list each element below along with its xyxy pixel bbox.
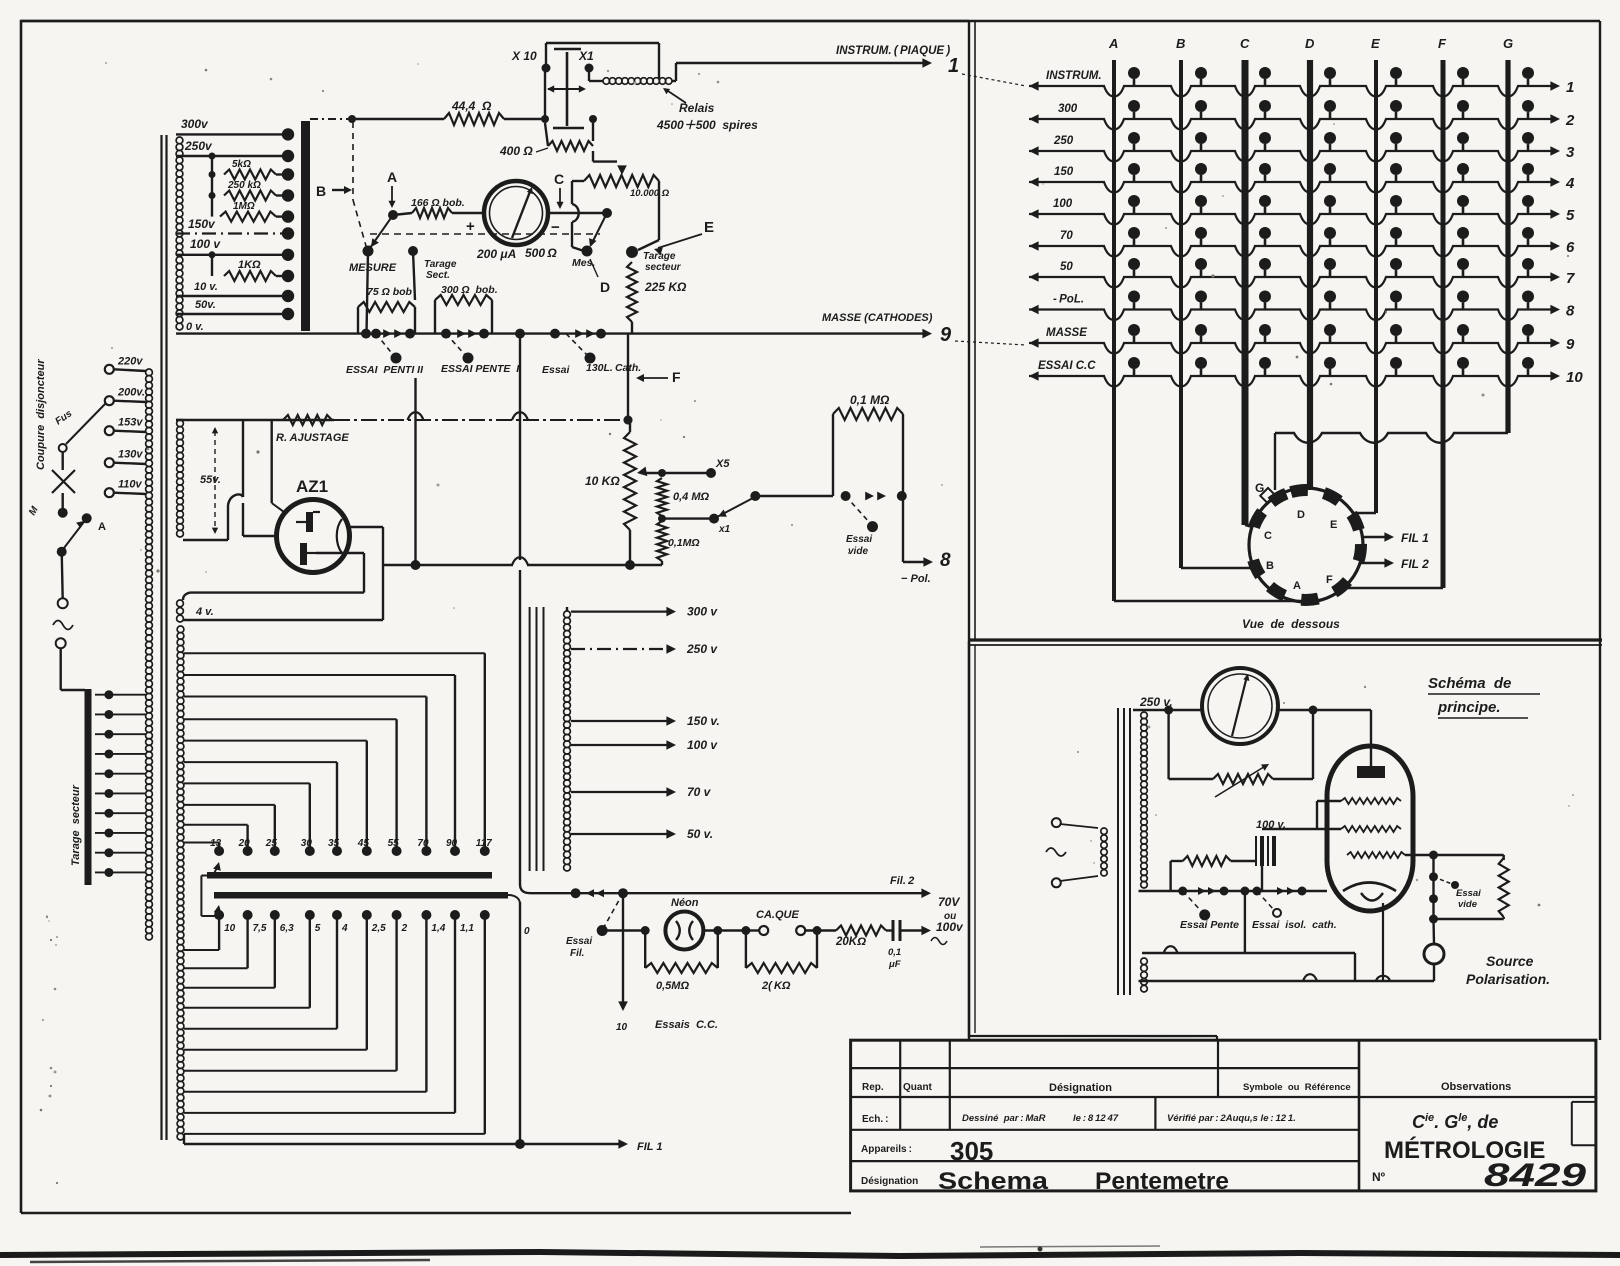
contacts essai 150b cath: [550, 329, 560, 339]
svg-text:R. AJUSTAGE: R. AJUSTAGE: [276, 432, 349, 444]
svg-text:Essai Pente: Essai Pente: [1180, 919, 1239, 931]
scan speck: [1038, 1247, 1043, 1252]
node X10 cap: [541, 115, 549, 123]
svg-text:D: D: [1297, 509, 1305, 521]
svg-text:X 10: X 10: [511, 49, 537, 63]
essai cc drop: [622, 893, 624, 1005]
svg-text:300 Ω bob.: 300 Ω bob.: [441, 284, 498, 296]
wiper X5: [637, 467, 647, 477]
svg-text:F: F: [1326, 574, 1333, 586]
svg-text:25: 25: [265, 838, 278, 849]
svg-text:AZ1: AZ1: [296, 477, 328, 496]
svg-text:Schema: Schema: [938, 1168, 1049, 1195]
svg-text:70: 70: [417, 838, 429, 849]
ganged switch dashed link: [370, 233, 600, 235]
wire 10000 right to E contact: [658, 181, 660, 240]
svg-text:Essai: Essai: [1456, 888, 1481, 899]
battery to bus: [1261, 866, 1263, 891]
mains selector circles 220v-110v: [105, 365, 114, 374]
matrix exit D: [1309, 376, 1311, 490]
svg-text:100v: 100v: [936, 920, 964, 934]
svg-text:Schéma de: Schéma de: [1428, 675, 1511, 692]
svg-text:Fil. 2: Fil. 2: [890, 875, 914, 887]
svg-text:Rep.: Rep.: [862, 1082, 884, 1093]
power tube outline: [1327, 746, 1413, 911]
svg-text:Cie. Gle, de: Cie. Gle, de: [1412, 1112, 1498, 1132]
svg-text:400 Ω: 400 Ω: [499, 144, 533, 158]
svg-text:13: 13: [210, 838, 222, 849]
switch arm A-MESURE: [370, 215, 393, 248]
terminal circle: [58, 598, 68, 608]
svg-text:8: 8: [1566, 303, 1575, 320]
rectifier tube AZ1: [277, 500, 350, 573]
svg-text:0: 0: [524, 926, 530, 937]
svg-text:Symbole ou Référence: Symbole ou Référence: [1243, 1082, 1351, 1093]
contact x1: [662, 517, 714, 519]
wire R ajustage down: [271, 420, 273, 503]
y420 solid left: [176, 419, 334, 421]
selector bar Tarage secteur: [85, 689, 92, 885]
transformer T2 core: [529, 607, 531, 871]
svg-text:F: F: [1438, 36, 1447, 51]
svg-text:X1: X1: [578, 49, 594, 63]
principle bus: [1139, 890, 1328, 892]
svg-text:50: 50: [1060, 261, 1073, 273]
svg-text:B: B: [1266, 560, 1274, 572]
switch arm x1: [714, 498, 753, 519]
contacts essai vide: [841, 491, 851, 501]
svg-text:G: G: [1503, 36, 1513, 51]
svg-text:7: 7: [1566, 270, 1575, 287]
svg-text:70: 70: [1060, 230, 1073, 242]
svg-text:+: +: [466, 218, 475, 235]
svg-text:44,4 Ω: 44,4 Ω: [451, 99, 492, 113]
svg-text:8429: 8429: [1484, 1157, 1586, 1193]
resistor 20KΩ series: [836, 926, 886, 936]
svg-text:Désignation: Désignation: [861, 1176, 918, 1187]
principle lower wiring: [1244, 891, 1246, 953]
essai vide contacts: [1429, 872, 1438, 881]
svg-text:Sect.: Sect.: [426, 270, 450, 281]
grid3 wire essai vide: [1405, 854, 1434, 856]
svg-text:Polarisation.: Polarisation.: [1466, 971, 1550, 987]
svg-text:4500＋500 spires: 4500＋500 spires: [656, 118, 758, 132]
svg-text:10.000 Ω: 10.000 Ω: [630, 188, 670, 199]
svg-text:X5: X5: [715, 458, 730, 470]
svg-text:D: D: [1305, 36, 1315, 51]
svg-text:0,1MΩ: 0,1MΩ: [668, 537, 700, 549]
wire essai pente II drop: [414, 378, 416, 565]
resistor 20 KΩ arch: [745, 931, 747, 969]
svg-text:Essai: Essai: [566, 936, 592, 947]
switch arm D-Mes: [591, 213, 607, 245]
svg-text:ESSAI C.C: ESSAI C.C: [1038, 360, 1096, 372]
switch M-A: [82, 513, 92, 523]
svg-text:10: 10: [224, 923, 236, 934]
selector bar B (thick contact bar): [301, 121, 310, 331]
filament taps row1 with nested wires: [214, 846, 224, 856]
svg-text:E: E: [1330, 519, 1337, 531]
wire mesure contact to bus: [367, 251, 369, 334]
T1 primary winding: [146, 369, 153, 376]
svg-text:FIL 1: FIL 1: [637, 1141, 662, 1153]
wire AZ1 bottom to 4v top: [316, 552, 364, 554]
wire 55v bottom loop: [183, 539, 228, 541]
svg-text:MASSE (CATHODES): MASSE (CATHODES): [822, 312, 933, 324]
node A dot: [388, 210, 398, 220]
svg-text:Pentemetre: Pentemetre: [1095, 1168, 1229, 1195]
resistor R AJUSTAGE: [283, 415, 332, 425]
principle meter right wire: [1278, 709, 1371, 711]
svg-text:− Pol.: − Pol.: [901, 573, 931, 585]
svg-text:0,1 MΩ: 0,1 MΩ: [850, 393, 890, 407]
svg-text:130v: 130v: [118, 449, 143, 461]
scan noise: [1568, 805, 1569, 806]
wire 400ohm to divider: [592, 151, 594, 162]
wire 44.4 ohm feed: [352, 118, 444, 120]
source polarisation terminal: [1432, 919, 1435, 944]
svg-text:2: 2: [1565, 112, 1575, 129]
svg-text:x1: x1: [718, 524, 731, 535]
resistor 75 Ω bob arch with contacts: [361, 329, 371, 339]
svg-text:6: 6: [1566, 239, 1575, 256]
svg-text:0,1: 0,1: [888, 947, 901, 958]
svg-text:117: 117: [476, 838, 492, 849]
matrix exit F: [1348, 587, 1443, 589]
panel divider vertical: [968, 21, 970, 1040]
svg-text:A: A: [1293, 580, 1301, 592]
matrix contact dots: [1128, 67, 1140, 79]
resistor 0,4 MΩ: [657, 478, 667, 516]
T2 secondary winding: [564, 611, 571, 618]
T2 winding top wire: [566, 607, 568, 611]
principle panel left border: [968, 641, 970, 1037]
svg-text:Essai isol. cath.: Essai isol. cath.: [1252, 919, 1337, 931]
wire 55v top: [176, 419, 183, 421]
svg-text:100 v: 100 v: [190, 237, 221, 251]
svg-text:Tarage secteur: Tarage secteur: [70, 784, 82, 866]
T3 primary: [1052, 818, 1061, 827]
wire horizontal y565: [383, 564, 513, 566]
svg-text:9: 9: [1566, 336, 1575, 353]
svg-text:90: 90: [446, 838, 458, 849]
svg-text:5kΩ: 5kΩ: [232, 159, 251, 170]
filament winding right side: [177, 626, 184, 633]
svg-text:50 v.: 50 v.: [687, 827, 713, 841]
essai isol cath switch: [1257, 891, 1274, 910]
svg-text:Essais C.C.: Essais C.C.: [655, 1019, 718, 1031]
svg-text:130L. Cath.: 130L. Cath.: [586, 362, 641, 374]
transformer T3 core: [1117, 708, 1119, 995]
outer frame border: [21, 21, 969, 1213]
svg-text:F: F: [672, 369, 681, 385]
svg-text:- PoL.: - PoL.: [1053, 294, 1084, 306]
svg-text:5: 5: [1566, 207, 1575, 224]
svg-text:1MΩ: 1MΩ: [233, 201, 255, 212]
matrix exit B: [1181, 567, 1252, 569]
fuse chain: [66, 403, 106, 444]
line FIL 1: [184, 1143, 622, 1145]
svg-text:B: B: [1176, 36, 1185, 51]
svg-text:7,5: 7,5: [253, 923, 267, 934]
svg-text:50v.: 50v.: [195, 299, 216, 311]
T1 HV taps 300v-50v with contact dots: [176, 133, 288, 135]
svg-text:300: 300: [1058, 103, 1078, 115]
wire F vertical: [627, 334, 629, 420]
svg-text:Tarage: Tarage: [643, 251, 676, 262]
svg-text:Vue de dessous: Vue de dessous: [1242, 617, 1340, 631]
essai pente resistor: [1171, 860, 1183, 862]
winding 55v: [177, 420, 184, 427]
principle panel borders: [969, 1037, 1217, 1040]
svg-text:1,4: 1,4: [431, 923, 445, 934]
svg-text:10 KΩ: 10 KΩ: [585, 474, 620, 488]
wire AZ1 left node: [243, 535, 278, 537]
svg-text:Désignation: Désignation: [1049, 1082, 1112, 1094]
bar1 wiper arrow: [213, 862, 221, 871]
svg-text:INSTRUM.: INSTRUM.: [1046, 70, 1102, 82]
svg-text:A: A: [98, 521, 106, 533]
wire AZ1 right loop: [349, 526, 383, 528]
tube cathode drop: [1382, 903, 1384, 981]
svg-text:300 v: 300 v: [687, 605, 718, 619]
transformer T1 core: [160, 135, 162, 1140]
svg-text:1: 1: [948, 55, 959, 77]
dashed switch arms on bus: [376, 334, 394, 356]
principle pot loop: [1167, 710, 1169, 779]
svg-text:FIL 2: FIL 2: [1401, 557, 1429, 571]
panel bottom left: [969, 1035, 1217, 1037]
svg-text:Relais: Relais: [679, 101, 715, 115]
wire C hook to Mes contact: [572, 180, 584, 182]
svg-text:2( KΩ: 2( KΩ: [761, 980, 791, 992]
svg-text:Vérifié par : 2Auqu,s le : 12: Vérifié par : 2Auqu,s le : 12 1.: [1167, 1113, 1296, 1124]
svg-text:Nº: Nº: [1372, 1170, 1386, 1184]
matrix exit C: [1245, 525, 1252, 527]
dash-dot line adjust: [334, 419, 628, 421]
svg-text:Fil.: Fil.: [570, 948, 584, 959]
svg-text:1,1: 1,1: [460, 923, 474, 934]
svg-text:Dessiné par : MaR: Dessiné par : MaR: [962, 1113, 1046, 1124]
line Fil.2: [520, 884, 531, 893]
svg-text:MASSE: MASSE: [1046, 327, 1087, 339]
svg-text:ESSAI PENTE I: ESSAI PENTE I: [441, 363, 520, 375]
tube top cap: [1357, 766, 1385, 778]
svg-text:166 Ω bob.: 166 Ω bob.: [411, 197, 465, 209]
svg-text:300v: 300v: [181, 117, 209, 131]
svg-text:ESSAI PENTI II: ESSAI PENTI II: [346, 364, 424, 376]
svg-text:250 kΩ: 250 kΩ: [227, 180, 261, 191]
matrix column vertical lines: [1112, 60, 1116, 601]
resistor 1KΩ from 100v tap: [209, 251, 216, 258]
meter right wire: [548, 212, 607, 214]
svg-text:1KΩ: 1KΩ: [238, 259, 261, 271]
resistor 300 Ω bob arch with contacts: [441, 329, 451, 339]
grid1 wire: [1317, 800, 1341, 802]
svg-text:70 v: 70 v: [687, 785, 712, 799]
svg-text:100 v: 100 v: [687, 738, 718, 752]
T2 HV taps with arrows: [571, 610, 668, 612]
tube grid 2: [1341, 826, 1401, 832]
capacitor 0,1 uF: [886, 929, 893, 931]
tarage secteur contact dots: [104, 690, 113, 699]
svg-text:225 KΩ: 225 KΩ: [644, 280, 687, 294]
svg-text:4: 4: [1565, 175, 1575, 192]
svg-text:D: D: [600, 279, 610, 295]
switch wafer dashed B line: [352, 122, 354, 200]
svg-text:250: 250: [1053, 135, 1074, 147]
svg-text:35: 35: [328, 838, 340, 849]
resistor 166 Ω bob.: [393, 213, 412, 215]
svg-text:2: 2: [401, 923, 408, 934]
principle top wire: [1133, 709, 1169, 711]
right border: [1599, 21, 1601, 1040]
T1 HV secondary winding: [176, 137, 183, 144]
svg-text:Appareils :: Appareils :: [861, 1144, 912, 1155]
wire center vertical: [519, 334, 521, 560]
svg-text:Tarage: Tarage: [424, 259, 457, 270]
tube cathode: [1343, 883, 1396, 892]
svg-text:3: 3: [1566, 144, 1575, 161]
svg-text:0,5MΩ: 0,5MΩ: [656, 980, 689, 992]
bar2 right bracket: [508, 895, 520, 904]
svg-text:A: A: [387, 169, 397, 185]
svg-text:8: 8: [940, 550, 951, 571]
svg-text:le : 8 12 47: le : 8 12 47: [1073, 1113, 1119, 1124]
svg-text:Source: Source: [1486, 953, 1534, 969]
bar1 left drop: [201, 875, 207, 877]
resistor 400 Ω: [589, 115, 597, 123]
contact Tarage Sect.: [408, 246, 418, 256]
svg-text:principe.: principe.: [1437, 699, 1501, 716]
selector bar fil 1: [207, 872, 492, 879]
svg-text:150: 150: [1054, 166, 1074, 178]
svg-text:250 v: 250 v: [686, 642, 718, 656]
node 0V bus start: [176, 332, 928, 334]
svg-text:200v.: 200v.: [117, 387, 145, 399]
capacitor/vibrator X10 X1 contact: [566, 52, 569, 126]
socket FIL 2 arrow: [1360, 562, 1388, 564]
svg-text:C: C: [554, 171, 564, 187]
svg-text:C: C: [1240, 36, 1250, 51]
winding 4v: [177, 600, 184, 607]
resistors 5kΩ 250kΩ 1MΩ divider: [209, 153, 216, 160]
center vertical to FIL1: [519, 902, 521, 1144]
svg-text:2,5: 2,5: [371, 923, 386, 934]
svg-text:MESURE: MESURE: [349, 262, 397, 274]
svg-text:Essai: Essai: [846, 534, 872, 545]
svg-text:4: 4: [341, 923, 348, 934]
svg-text:secteur: secteur: [645, 262, 682, 273]
principle meter: [1202, 668, 1278, 744]
svg-text:9: 9: [940, 324, 952, 346]
svg-text:5: 5: [315, 923, 321, 934]
svg-text:FIL 1: FIL 1: [1401, 531, 1429, 545]
switch arm essai fil: [604, 893, 623, 927]
svg-text:6,3: 6,3: [280, 923, 294, 934]
svg-text:vide: vide: [848, 546, 868, 557]
svg-text:Néon: Néon: [671, 897, 699, 909]
bar2 wiper arrow: [214, 905, 222, 914]
bus MASSE (CATHODES) node 9: [922, 329, 932, 339]
svg-text:C: C: [1264, 530, 1272, 542]
svg-text:70V: 70V: [938, 895, 960, 909]
resistor 0,1 MΩ lower: [657, 521, 667, 561]
svg-text:E: E: [704, 219, 714, 236]
wire bar-top to node B1: [310, 118, 352, 120]
svg-text:1: 1: [1566, 79, 1574, 96]
essai pente switch: [1183, 891, 1202, 912]
svg-text:Coupure disjoncteur: Coupure disjoncteur: [35, 359, 47, 470]
svg-text:110v: 110v: [118, 479, 143, 491]
resistor 0,5 MΩ arch: [644, 931, 646, 969]
matrix exit E: [1352, 512, 1376, 514]
tube grid 1: [1341, 798, 1401, 804]
selector bar fil 2: [214, 892, 508, 899]
svg-text:10: 10: [616, 1022, 628, 1033]
svg-text:0,4 MΩ: 0,4 MΩ: [673, 491, 710, 503]
svg-text:CA.QUE: CA.QUE: [756, 909, 799, 921]
resistor 0,1 MΩ arch: [832, 414, 834, 496]
contact CA.QUE: [746, 929, 759, 931]
svg-text:153v: 153v: [118, 417, 143, 429]
svg-text:Ech. :: Ech. :: [862, 1114, 888, 1125]
svg-text:500 Ω: 500 Ω: [525, 246, 557, 260]
svg-text:INSTRUM. ( PIAQUE ): INSTRUM. ( PIAQUE ): [836, 45, 950, 57]
svg-text:55v.: 55v.: [200, 474, 221, 486]
T3 lower winding: [1141, 958, 1148, 965]
svg-text:305: 305: [950, 1136, 993, 1166]
principle pot arrow: [1215, 765, 1267, 797]
svg-text:20KΩ: 20KΩ: [835, 936, 866, 948]
svg-text:4 v.: 4 v.: [195, 606, 214, 618]
tube socket Vue de dessous: [1249, 488, 1363, 602]
svg-text:150 v.: 150 v.: [687, 714, 720, 728]
node 8 -Pol: [903, 561, 928, 563]
filament taps row2 with nested wires: [214, 910, 224, 920]
svg-text:45: 45: [357, 838, 370, 849]
wire to essai vide: [755, 495, 833, 497]
svg-text:μF: μF: [888, 959, 901, 970]
svg-text:vide: vide: [1458, 899, 1478, 910]
svg-text:A: A: [1108, 36, 1118, 51]
neon lamp Néon: [602, 929, 645, 931]
resistor 10.000 Ω: [584, 175, 659, 187]
svg-text:30: 30: [301, 838, 313, 849]
svg-text:10: 10: [1566, 369, 1583, 386]
svg-text:Quant: Quant: [903, 1082, 933, 1093]
svg-text:0 v.: 0 v.: [186, 321, 204, 333]
svg-text:E: E: [1371, 36, 1380, 51]
matrix exit A: [1114, 600, 1311, 602]
meter 200uA galvanometer: [484, 181, 548, 245]
socket FIL 1 arrow: [1363, 536, 1388, 538]
svg-text:100: 100: [1053, 198, 1073, 210]
switch arm essai vide: [846, 496, 870, 523]
svg-text:250v: 250v: [184, 139, 213, 153]
scan bottom streak: [0, 1252, 1620, 1256]
svg-text:55: 55: [388, 838, 400, 849]
svg-text:B: B: [316, 183, 326, 199]
svg-text:Observations: Observations: [1441, 1081, 1511, 1093]
svg-text:20: 20: [238, 838, 251, 849]
svg-text:Essai: Essai: [542, 364, 571, 376]
title block grid: [851, 1040, 1596, 1191]
matrix exit G with bypass arcs: [1275, 433, 1508, 443]
svg-text:75 Ω bob: 75 Ω bob: [367, 286, 413, 298]
matrix panel bottom border: [969, 638, 1602, 641]
tube grid 3: [1347, 852, 1405, 858]
